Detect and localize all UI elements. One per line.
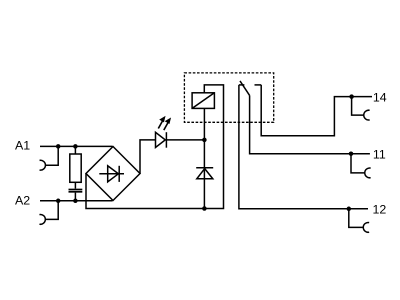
svg-text:12: 12 [373,203,387,217]
svg-text:A1: A1 [15,138,30,152]
svg-text:A2: A2 [15,194,30,208]
svg-text:11: 11 [373,147,386,161]
svg-text:14: 14 [373,91,387,105]
